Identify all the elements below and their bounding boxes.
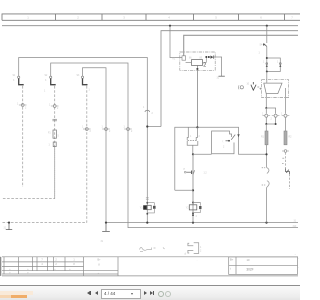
svg-text:R2: R2: [289, 137, 293, 139]
svg-text:2: 2: [131, 131, 133, 133]
terminal box on S2 line: [53, 142, 56, 147]
svg-text:31: 31: [217, 78, 220, 80]
svg-text:3: 3: [13, 80, 15, 82]
svg-text:t: t: [230, 266, 231, 270]
svg-text:1: 1: [262, 114, 264, 116]
svg-text:1: 1: [143, 107, 145, 109]
svg-text:2: 2: [203, 62, 206, 68]
svg-text:10: 10: [247, 258, 250, 262]
switch S2 actuator dashed: [54, 86, 56, 199]
view back/fwd circular icons: [158, 291, 165, 298]
svg-text:3: 3: [45, 80, 47, 82]
T-mark on S2 line: [52, 119, 57, 121]
svg-text:10: 10: [247, 84, 250, 86]
connector circles row y=129: [85, 128, 88, 131]
title block table: [1, 257, 298, 276]
svg-text:2: 2: [223, 147, 225, 149]
connector symbol lower middle: [188, 243, 199, 254]
dashed box bottom (harness outline): [3, 147, 55, 199]
svg-text:1: 1: [277, 62, 279, 64]
svg-text:2: 2: [77, 15, 79, 19]
page box: [101, 289, 142, 298]
ground G1: [6, 223, 12, 230]
bus 1 (solid ground bus): [106, 222, 298, 224]
svg-text:R1: R1: [261, 137, 265, 139]
svg-text:Y2: Y2: [186, 208, 190, 210]
bus A wire 30 (top full-width): [2, 25, 298, 27]
tiny component labels: [4, 45, 298, 253]
svg-text:S4: S4: [260, 45, 264, 47]
svg-text:1: 1: [44, 91, 46, 93]
pressure switch on x=193: [184, 154, 194, 222]
relay K1 phantom box: [180, 52, 215, 70]
svg-text:2: 2: [109, 131, 111, 133]
switch S3: [81, 76, 87, 85]
svg-text:2: 2: [90, 131, 92, 133]
resistor R2 (gray): [284, 131, 287, 145]
parallel contact loop: [267, 58, 281, 72]
switch S2: [50, 76, 56, 85]
svg-text:1: 1: [190, 136, 192, 138]
wire K1 feed from dot to relay box: [170, 26, 182, 58]
svg-text:8: 8: [73, 263, 75, 266]
contact arrow on x=238.5: [237, 134, 239, 137]
connector circles y=116: [265, 114, 268, 117]
svg-text:·: ·: [197, 260, 198, 263]
net Q join dot: [192, 189, 194, 191]
switch S1: [18, 76, 24, 85]
switch on horn line: [263, 43, 266, 46]
svg-text:-: -: [298, 267, 299, 270]
horn left icon: [238, 82, 261, 90]
junction dots on bus1: [8, 222, 10, 224]
svg-text:S3: S3: [77, 75, 81, 77]
page bottom frame border: [2, 275, 298, 277]
svg-text:B+: B+: [230, 257, 234, 261]
wire line C: [184, 35, 298, 55]
svg-text:3: 3: [123, 15, 125, 19]
svg-text:S1: S1: [13, 75, 17, 77]
nav first: [87, 291, 90, 295]
horn symbol trapezoid: [264, 83, 282, 94]
svg-text:K1: K1: [173, 59, 177, 61]
svg-text:Y1: Y1: [140, 208, 144, 210]
svg-text:31F: 31F: [293, 226, 298, 228]
connector stubs: [19, 105, 289, 151]
svg-text:1: 1: [124, 127, 126, 129]
svg-text:1: 1: [263, 62, 265, 64]
svg-text:1: 1: [281, 114, 283, 116]
svg-text:2: 2: [25, 108, 27, 110]
faint annotations right margin: [184, 253, 299, 270]
relay contact small rect: [182, 56, 186, 60]
svg-text:7: 7: [291, 15, 293, 19]
connector X1 (plug pins): [187, 127, 198, 154]
svg-text:4: 4: [41, 263, 43, 266]
bottom toolbar: [0, 285, 300, 300]
svg-text:31: 31: [4, 228, 7, 230]
svg-text:6: 6: [260, 15, 262, 19]
ruler column numbers: [27, 15, 293, 19]
page frame top ruler band: [2, 14, 300, 20]
svg-text:1: 1: [259, 53, 261, 55]
svg-text:2: 2: [55, 258, 57, 261]
svg-text:5: 5: [215, 15, 217, 19]
svg-text:↔: ↔: [97, 271, 99, 274]
svg-text:2: 2: [152, 113, 154, 115]
solenoid Y1: [143, 202, 155, 215]
svg-text:1: 1: [27, 15, 29, 19]
svg-text:.d: .d: [184, 253, 187, 256]
svg-text:302F: 302F: [246, 267, 253, 271]
svg-text:F1: F1: [48, 133, 51, 135]
svg-text:→: →: [294, 253, 296, 256]
wire feeder A (switch S1 loop): [19, 58, 148, 223]
svg-text:(: (: [223, 141, 224, 143]
svg-text:4: 4: [196, 216, 198, 218]
svg-text:1.2: 1.2: [204, 173, 208, 175]
svg-text:2: 2: [57, 108, 59, 110]
arc connector on x=147.3: [145, 110, 150, 112]
ground G2: [102, 223, 110, 232]
svg-text:31: 31: [101, 241, 104, 243]
connector circle on S2 line: [53, 105, 56, 108]
connector pair on x=266.5: [262, 167, 269, 187]
rejoin of horn outputs: [266, 117, 275, 124]
svg-text:4: 4: [168, 15, 170, 19]
switch S3 actuator dashed: [86, 86, 88, 223]
orange strips: [0, 291, 33, 295]
svg-text:B+: B+: [98, 259, 102, 262]
svg-text:5: 5: [58, 136, 60, 138]
net Q horizontal: [175, 127, 267, 190]
node bus A / horn branch junction dot: [266, 25, 268, 27]
svg-text:1: 1: [73, 258, 75, 261]
horn output single then split: [265, 94, 267, 108]
svg-text:2: 2: [199, 136, 201, 138]
nav last: [150, 291, 153, 295]
R2 lower dashes: [284, 150, 287, 153]
terminal bar under relay (G3): [219, 75, 225, 77]
svg-text:2: 2: [271, 119, 273, 121]
svg-text:2: 2: [200, 251, 202, 253]
svg-text:1: 1: [82, 127, 84, 129]
nav next: [144, 291, 147, 295]
switch S1 actuator dashed: [22, 86, 24, 187]
svg-text:1: 1: [102, 127, 104, 129]
bus 1 dashed left segment: [3, 222, 88, 224]
svg-text:1: 1: [89, 90, 91, 92]
svg-text:86: 86: [189, 58, 192, 60]
relay coil K1: [192, 60, 203, 66]
wire feeder B (switch S2 loop): [51, 63, 298, 228]
svg-text:2: 2: [55, 263, 57, 266]
svg-text:31: 31: [294, 221, 297, 223]
faint revision scribble: [140, 247, 165, 251]
relay diode branch: [203, 56, 222, 77]
svg-text:8: 8: [98, 264, 100, 267]
svg-text:1: 1: [17, 104, 19, 106]
wire below R1: [266, 145, 268, 168]
horn phantom box: [262, 80, 289, 98]
svg-text:-: -: [298, 258, 299, 261]
connector circle on S1 line: [21, 104, 24, 107]
wire feeder C (switch S3 loop): [83, 68, 107, 223]
box B2 (switch unit): [212, 131, 236, 154]
svg-text:1: 1: [49, 145, 51, 147]
fuse F on S2 line: [53, 130, 56, 138]
wire line B: [161, 31, 298, 127]
resistor R1 (gray): [265, 131, 268, 145]
svg-text:P: P: [184, 169, 186, 171]
nav prev: [95, 291, 98, 295]
svg-text:1: 1: [49, 105, 51, 107]
horn feed chain: [263, 26, 281, 83]
node bus A / K1 junction dot: [169, 25, 171, 27]
net P horizontal (x147-x161): [147, 126, 161, 128]
wire coil output down: [196, 65, 198, 127]
svg-text:85: 85: [200, 58, 203, 60]
svg-text:7: 7: [41, 258, 43, 261]
X1 output to box B2: [193, 153, 212, 155]
title block tiny texts: [9, 258, 197, 274]
solenoid Y2: [189, 202, 201, 216]
svg-text:S2: S2: [45, 75, 49, 77]
svg-text:1: 1: [200, 247, 202, 249]
terminal ticks above Y1: [146, 198, 149, 199]
